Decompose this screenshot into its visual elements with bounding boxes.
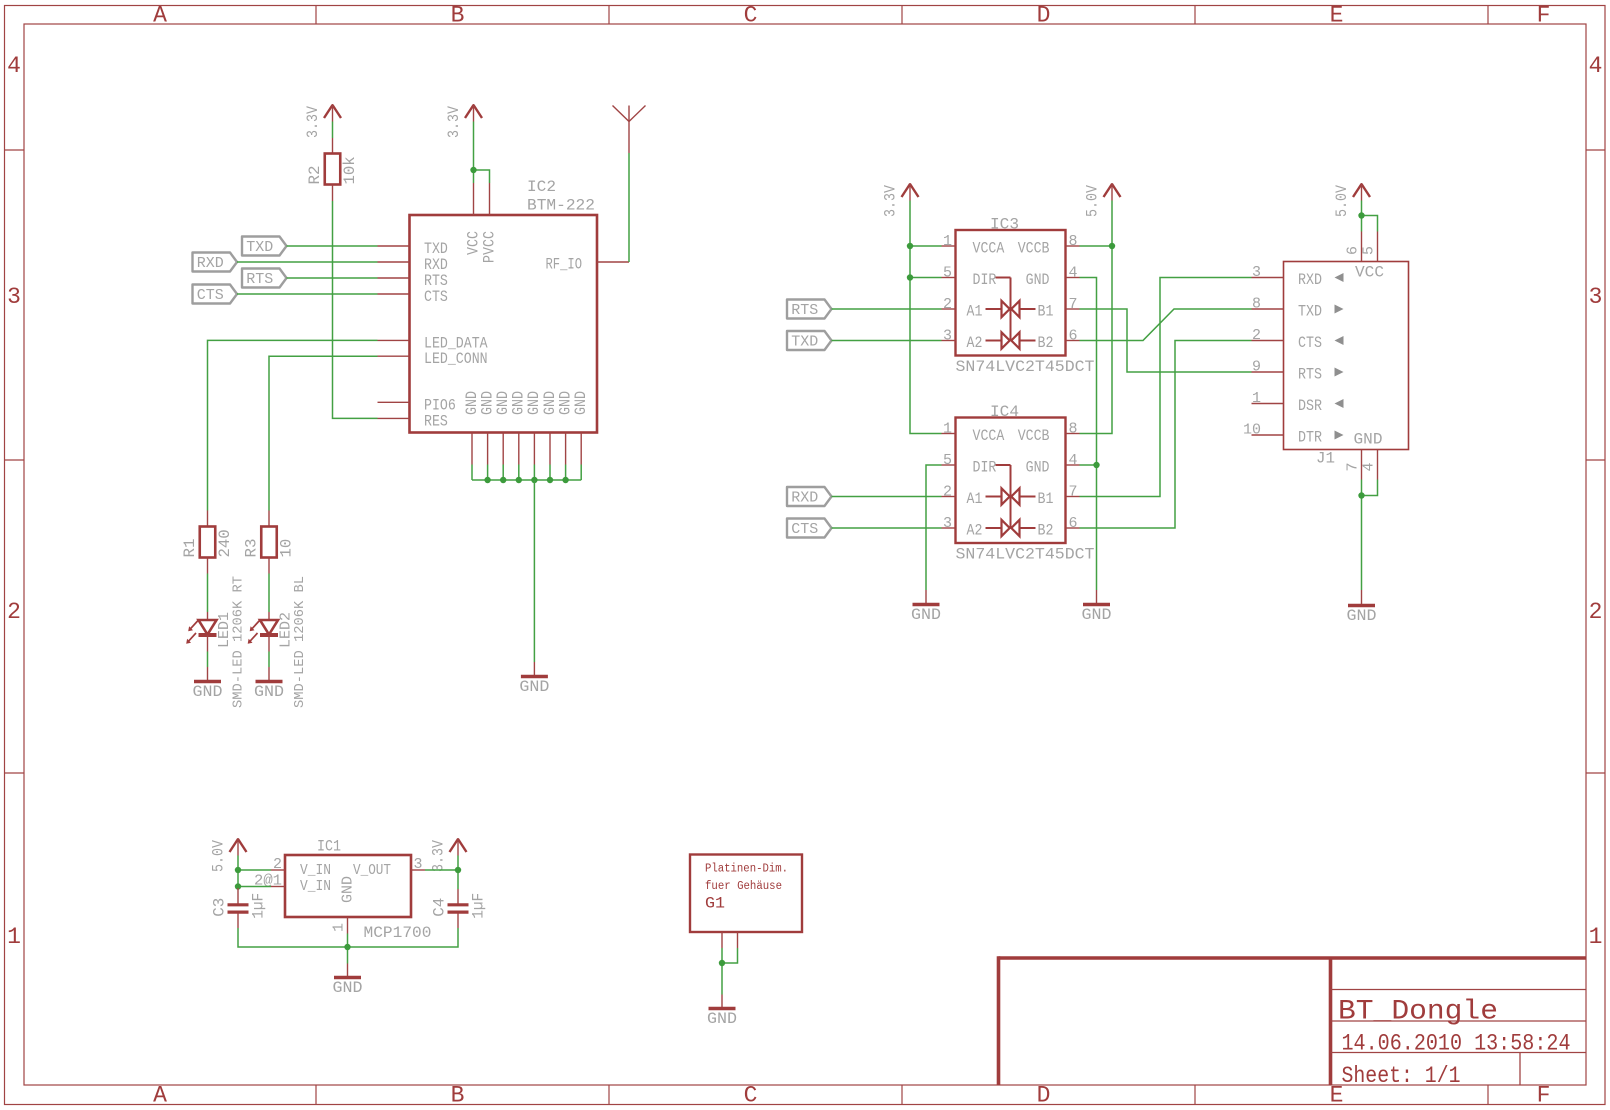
svg-text:GND: GND (1082, 606, 1112, 624)
svg-text:RTS: RTS (246, 271, 273, 288)
svg-text:3: 3 (943, 515, 952, 532)
power supply 5.0V arrow at IC1 (230, 838, 247, 856)
wire net RTS to IC3 A1 (832, 308, 942, 310)
power supply 5.0V arrow at IC3 (1104, 183, 1121, 201)
svg-text:A: A (153, 1083, 167, 1109)
svg-text:A2: A2 (967, 522, 983, 540)
wire C3 to GND bus (238, 928, 348, 947)
pin GND3 of IC2 (494, 391, 512, 465)
capacitor C3 1uF (211, 888, 268, 928)
pin RXD of IC2 (378, 256, 448, 274)
wire net TXD to IC3 A2 (832, 340, 942, 342)
pin 1 GND of IC1 (331, 876, 357, 934)
svg-text:2: 2 (943, 484, 952, 501)
wire net CTS to IC2 (237, 293, 378, 295)
pin 1 VCCA of IC3 (942, 233, 1005, 258)
svg-text:10: 10 (1243, 422, 1261, 439)
wire net RTS to IC2 (287, 277, 378, 279)
pin 2 V_IN of IC1 (271, 856, 331, 879)
power supply 3.3V arrow above IC2 VCC (465, 104, 482, 122)
svg-text:CTS: CTS (791, 521, 818, 538)
wire IC4 B1 to J1 RXD (1080, 278, 1252, 497)
svg-text:5: 5 (943, 265, 952, 282)
wire net 3.3V rail to IC3 VCCA/DIR and IC4 VCCA (910, 201, 942, 434)
svg-text:4: 4 (1069, 265, 1078, 282)
svg-text:2: 2 (943, 296, 952, 313)
svg-text:3: 3 (1589, 284, 1603, 310)
junction at IC1 pin2@1 (235, 883, 241, 889)
junction at J1 VCC branch (1358, 212, 1364, 218)
svg-text:1: 1 (1252, 390, 1261, 407)
ground symbol below GND rail (1083, 603, 1110, 607)
svg-text:J1: J1 (1316, 450, 1335, 468)
IC IC3 SN74LVC2T45DCT body (956, 230, 1066, 356)
svg-text:B: B (451, 3, 465, 29)
pin GND6 of IC2 (541, 391, 559, 465)
junction 3.3V rail at IC3 pin1 (907, 243, 913, 249)
resistor R1 240 (181, 511, 234, 574)
net label RTS flag (242, 269, 287, 288)
svg-text:1µF: 1µF (470, 893, 488, 919)
pin LED_DATA of IC2 (378, 334, 488, 352)
svg-text:E: E (1330, 3, 1344, 29)
ground symbol below IC2 (521, 675, 548, 679)
wire R1 to LED1 (207, 574, 209, 613)
svg-text:IC1: IC1 (317, 838, 341, 856)
svg-text:TXD: TXD (1298, 303, 1322, 321)
svg-text:R3: R3 (243, 539, 261, 558)
pin VCC of IC2 (464, 183, 482, 255)
svg-text:A2: A2 (967, 334, 983, 352)
svg-text:2: 2 (1589, 599, 1603, 625)
pin RES of IC2 (378, 412, 448, 430)
wire net CTS to IC4 A2 (832, 527, 942, 529)
pin GND4 of IC2 (510, 391, 528, 465)
junction at J1 GND branch (1358, 492, 1364, 498)
resistor R2 10k (306, 138, 359, 201)
svg-text:B1: B1 (1038, 490, 1054, 508)
pin 7 GND of J1 (1345, 450, 1362, 480)
power supply 5.0V arrow at J1 (1353, 183, 1370, 201)
svg-text:GND: GND (1347, 607, 1377, 625)
junction at IC1 pin2 (235, 867, 241, 873)
svg-text:C: C (744, 1083, 758, 1109)
svg-text:SMD-LED 1206K BL: SMD-LED 1206K BL (292, 576, 308, 708)
svg-text:DIR: DIR (973, 271, 997, 289)
svg-text:6: 6 (1345, 246, 1362, 255)
pin 8 TXD of J1 (1252, 296, 1344, 321)
pin 4 GND of IC4 (210, 183, 1587, 1089)
junction at G1 GND (719, 960, 725, 966)
svg-text:3.3V: 3.3V (882, 184, 900, 217)
pin GND7 of IC2 (556, 391, 574, 465)
svg-text:GND: GND (519, 678, 549, 696)
svg-text:PVCC: PVCC (480, 231, 498, 263)
pin 8 VCCB of IC4 (210, 183, 1587, 1089)
svg-text:3: 3 (943, 328, 952, 345)
pin RTS of IC2 (378, 272, 448, 290)
svg-text:F: F (1537, 1083, 1551, 1109)
wire net 5.0V to IC1 V_IN pins and C3 (237, 856, 239, 889)
svg-text:8: 8 (1252, 296, 1261, 313)
wire IC3 B1 to J1 RTS (1080, 309, 1252, 372)
svg-text:5.0V: 5.0V (210, 839, 228, 872)
wire G1 to GND (721, 948, 723, 995)
bidirectional buffer symbol A1-B1 inside IC4 (1002, 488, 1020, 504)
svg-text:9: 9 (1252, 359, 1261, 376)
wire net 3.3V from supply to R2 (332, 122, 334, 139)
svg-text:fuer Gehäuse: fuer Gehäuse (705, 880, 782, 893)
svg-text:A: A (153, 3, 167, 29)
svg-text:IC4: IC4 (990, 403, 1019, 421)
svg-text:7: 7 (1069, 484, 1078, 501)
ground symbol below IC1 (334, 976, 361, 980)
junction 5.0V rail at IC3 pin8 (1109, 243, 1115, 249)
svg-text:C3: C3 (211, 898, 229, 917)
power supply 3.3V arrow at IC3 (902, 183, 919, 201)
wire IC4 DIR to GND (926, 465, 942, 590)
svg-text:SN74LVC2T45DCT: SN74LVC2T45DCT (956, 358, 1095, 376)
svg-text:GND: GND (1354, 431, 1383, 449)
svg-text:CTS: CTS (1298, 334, 1322, 352)
svg-text:RTS: RTS (791, 302, 818, 319)
svg-text:1: 1 (1589, 924, 1603, 950)
wire net RXD to IC4 A1 (832, 496, 942, 498)
svg-text:B2: B2 (1038, 334, 1054, 352)
svg-text:SMD-LED 1206K RT: SMD-LED 1206K RT (231, 576, 247, 708)
pin 9 RTS of J1 (1252, 359, 1344, 384)
svg-text:5.0V: 5.0V (1084, 184, 1102, 217)
svg-text:IC2: IC2 (527, 178, 556, 196)
svg-text:Platinen-Dim.: Platinen-Dim. (705, 863, 788, 876)
svg-text:V_IN: V_IN (300, 878, 331, 895)
svg-text:B1: B1 (1038, 303, 1054, 321)
junction 3.3V rail at IC3 pin5 (907, 274, 913, 280)
ground symbol below IC4 DIR (913, 603, 940, 607)
svg-text:3: 3 (414, 856, 423, 873)
wire GND bus under IC2 (471, 465, 473, 481)
svg-text:GND: GND (254, 683, 284, 701)
pin 2 A1 of IC4 (942, 484, 983, 509)
svg-text:2: 2 (7, 599, 21, 625)
svg-text:CTS: CTS (424, 288, 448, 306)
wire net TXD to IC2 (287, 245, 378, 247)
pin 3 A2 of IC4 (942, 515, 983, 540)
svg-text:RES: RES (424, 412, 448, 430)
svg-text:RXD: RXD (1298, 271, 1322, 289)
svg-text:3: 3 (7, 284, 21, 310)
svg-text:R2: R2 (306, 166, 324, 185)
wire GND drop under IC2 (533, 480, 535, 662)
svg-text:V_OUT: V_OUT (353, 862, 391, 879)
svg-text:G1: G1 (705, 895, 725, 913)
svg-text:LED_CONN: LED_CONN (424, 350, 488, 368)
pin GND1 of IC2 (463, 391, 481, 465)
pin 5 VCC of J1 (1361, 232, 1378, 262)
svg-text:DTR: DTR (1298, 429, 1322, 447)
svg-text:8: 8 (1069, 421, 1078, 438)
svg-text:1: 1 (943, 421, 952, 438)
svg-text:TXD: TXD (246, 239, 273, 256)
title block (999, 956, 1587, 1085)
wire net LED_DATA from IC2 to R1 (208, 340, 378, 510)
svg-text:3.3V: 3.3V (430, 839, 448, 872)
svg-text:5.0V: 5.0V (1333, 184, 1351, 217)
ground symbol below J1 (1348, 604, 1375, 608)
svg-text:1: 1 (331, 923, 348, 932)
antenna E1 (613, 106, 646, 154)
svg-text:2: 2 (1252, 327, 1261, 344)
svg-text:Sheet: 1/1: Sheet: 1/1 (1342, 1063, 1461, 1089)
svg-text:GND: GND (333, 979, 363, 997)
svg-text:4: 4 (1069, 452, 1078, 469)
wire GND rail right of IC3/IC4 (1080, 278, 1097, 591)
svg-text:5: 5 (1361, 246, 1378, 255)
svg-text:4: 4 (7, 53, 21, 79)
svg-text:6: 6 (1069, 515, 1078, 532)
svg-text:SN74LVC2T45DCT: SN74LVC2T45DCT (956, 546, 1095, 564)
svg-text:TXD: TXD (791, 334, 818, 351)
svg-text:RXD: RXD (791, 490, 818, 507)
net label RTS flag at IC3 (787, 300, 832, 319)
wire net RXD to IC2 (237, 261, 378, 263)
ground symbol below LED2 (256, 680, 283, 684)
net label TXD flag at IC3 (787, 331, 832, 350)
pin 3 A2 of IC3 (942, 328, 983, 353)
junction at IC1 pin3 (455, 867, 461, 873)
resistor R3 10 (243, 511, 296, 574)
ground symbol below G1 (709, 1007, 736, 1011)
pins of G1 (722, 932, 738, 948)
bidirectional buffer symbol A1-B1 inside IC3 (1002, 301, 1020, 317)
svg-text:DIR: DIR (973, 459, 997, 477)
svg-text:7: 7 (1345, 462, 1362, 471)
wire R3 to LED2 (268, 574, 270, 613)
svg-text:14.06.2010 13:58:24: 14.06.2010 13:58:24 (1342, 1031, 1571, 1057)
pin 6 B2 of IC4 (210, 183, 1587, 1089)
pin 6 VCC of J1 (1345, 232, 1362, 262)
svg-text:4: 4 (1589, 53, 1603, 79)
wire net GND from J1 pins 7 and 4 (1361, 480, 1363, 591)
wire net LED_CONN from IC2 to R3 (269, 356, 378, 510)
net label CTS flag at IC4 (787, 519, 832, 538)
svg-text:C4: C4 (431, 898, 449, 917)
pin 10 DTR of J1 (1243, 422, 1344, 447)
svg-text:GND: GND (340, 876, 357, 903)
svg-text:VCCB: VCCB (1018, 427, 1050, 445)
svg-text:D: D (1037, 3, 1051, 29)
svg-text:GND: GND (1026, 459, 1050, 477)
svg-text:4: 4 (1361, 462, 1378, 471)
svg-text:240: 240 (216, 529, 234, 557)
board-dimension part G1 body (690, 855, 802, 933)
pin 1 DSR of J1 (1252, 390, 1344, 415)
LED LED2 SMD-LED 1206K BL (248, 576, 308, 708)
power supply 3.3V arrow above R2 (324, 104, 341, 122)
wire net 5.0V to J1 pins 6 and 5 (1361, 201, 1363, 232)
svg-text:7: 7 (1069, 296, 1078, 313)
pin 6 B2 of IC3 (210, 183, 1587, 1089)
net label RXD flag at IC4 (787, 487, 832, 506)
pin TXD of IC2 (378, 240, 448, 258)
net label RXD flag (193, 253, 238, 272)
wire net RES from R2 to IC2 RES pin (333, 201, 378, 418)
svg-text:IC3: IC3 (990, 216, 1019, 234)
svg-text:6: 6 (1069, 328, 1078, 345)
pin 2 A1 of IC3 (942, 296, 983, 321)
svg-text:VCCA: VCCA (973, 427, 1005, 445)
svg-text:CTS: CTS (197, 287, 224, 304)
svg-text:3.3V: 3.3V (445, 105, 463, 138)
bidirectional buffer symbol A2-B2 inside IC3 (1002, 332, 1020, 348)
pin 7 B1 of IC4 (210, 183, 1587, 1089)
wire net 3.3V supply to VCC/PVCC pins (473, 122, 475, 184)
IC1 MCP1700 voltage regulator body (285, 855, 411, 917)
svg-text:RXD: RXD (197, 255, 224, 272)
svg-text:2: 2 (273, 856, 282, 873)
connector J1 body (1284, 262, 1409, 450)
capacitor C4 1uF (431, 889, 488, 928)
svg-text:C: C (744, 3, 758, 29)
svg-text:5: 5 (943, 452, 952, 469)
pin LED_CONN of IC2 (378, 350, 488, 368)
svg-text:DSR: DSR (1298, 397, 1322, 415)
pin 2 CTS of J1 (1252, 327, 1344, 352)
svg-text:GND: GND (193, 683, 223, 701)
junction at IC2 VCC branch (470, 167, 476, 173)
pin CTS of IC2 (378, 288, 448, 306)
svg-text:10: 10 (278, 539, 296, 558)
svg-text:GND: GND (572, 391, 590, 415)
pin 4 GND of IC3 (210, 183, 1587, 1089)
svg-text:A1: A1 (967, 490, 983, 508)
pin 4 GND of J1 (1361, 450, 1378, 480)
pin 3 RXD of J1 (1252, 264, 1344, 289)
pin 5 DIR of IC4 (942, 452, 997, 477)
pin 5 DIR of IC3 (942, 265, 997, 290)
net label TXD flag (242, 237, 287, 256)
svg-text:VCC: VCC (1355, 264, 1384, 282)
junction GND rail at IC4 pin4 (1093, 462, 1099, 468)
junction at IC1 GND bus (344, 944, 350, 950)
svg-text:GND: GND (911, 606, 941, 624)
svg-text:B2: B2 (1038, 522, 1054, 540)
svg-text:1µF: 1µF (250, 893, 268, 919)
power supply 3.3V arrow at IC1 output (450, 838, 467, 856)
svg-text:BT_Dongle: BT_Dongle (1338, 997, 1498, 1028)
pin 1 VCCA of IC4 (942, 421, 1005, 446)
pin GND5 of IC2 (525, 391, 543, 465)
svg-text:B: B (451, 1083, 465, 1109)
pin PIO6 of IC2 (378, 396, 456, 414)
net label CTS flag (193, 285, 238, 304)
svg-text:3: 3 (1252, 264, 1261, 281)
wire LED2 to GND (268, 652, 270, 668)
wire C4 to GND bus (348, 928, 459, 947)
svg-text:GND: GND (1026, 271, 1050, 289)
svg-text:BTM-222: BTM-222 (527, 197, 595, 215)
svg-text:1: 1 (7, 924, 21, 950)
wire net RF from antenna to IC2 RF_IO (628, 153, 630, 262)
svg-text:F: F (1537, 3, 1551, 29)
IC IC4 SN74LVC2T45DCT body (956, 418, 1066, 544)
wire IC3 B2 to J1 TXD (1080, 309, 1252, 341)
svg-text:10k: 10k (341, 156, 359, 184)
ground symbol below LED1 (194, 680, 221, 684)
pin 3 V_OUT of IC1 (353, 856, 425, 879)
svg-text:3.3V: 3.3V (304, 105, 322, 138)
wire net 5.0V rail to IC3 VCCB and IC4 VCCB (1080, 201, 1113, 434)
pin GND2 of IC2 (478, 391, 496, 465)
svg-text:GND: GND (707, 1010, 737, 1028)
pin 2@1 V_IN of IC1 (254, 873, 331, 896)
wire IC1 GND pin to bus (347, 934, 349, 964)
bidirectional buffer symbol A2-B2 inside IC4 (1002, 520, 1020, 536)
svg-text:VCCB: VCCB (1018, 240, 1050, 258)
IC IC2 BTM-222 bluetooth module body (410, 215, 598, 433)
svg-text:RTS: RTS (1298, 366, 1322, 384)
pin 8 VCCB of IC3 (210, 183, 1587, 1089)
wire LED1 to GND (207, 652, 209, 668)
pin GND8 of IC2 (572, 391, 590, 465)
wire net 3.3V from IC1 V_OUT (425, 869, 458, 871)
svg-text:A1: A1 (967, 303, 983, 321)
pin RF_IO of IC2 (546, 256, 630, 274)
svg-text:VCCA: VCCA (973, 240, 1005, 258)
pin PVCC of IC2 (480, 183, 498, 263)
svg-text:8: 8 (1069, 233, 1078, 250)
wire IC4 B2 to J1 CTS (1080, 341, 1252, 529)
svg-text:R1: R1 (181, 539, 199, 558)
svg-text:V_IN: V_IN (300, 862, 331, 879)
svg-text:1: 1 (943, 233, 952, 250)
LED LED1 SMD-LED 1206K RT (186, 576, 246, 708)
svg-text:MCP1700: MCP1700 (364, 924, 432, 942)
svg-text:RF_IO: RF_IO (546, 256, 583, 274)
svg-text:D: D (1037, 1083, 1051, 1109)
pin 7 B1 of IC3 (210, 183, 1587, 1089)
